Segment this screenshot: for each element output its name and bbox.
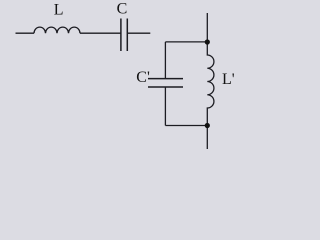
wire left branch lower	[164, 87, 166, 126]
wire bottom stub	[206, 126, 208, 150]
wire left branch upper	[164, 42, 166, 79]
node bottom junction	[205, 123, 210, 128]
wire top horizontal	[165, 41, 207, 43]
svg-text:L': L'	[222, 71, 235, 88]
inductor L	[34, 27, 80, 33]
svg-text:C: C	[117, 1, 128, 18]
wire left lead	[16, 32, 35, 34]
svg-text:L: L	[54, 1, 64, 18]
wire between L and C	[80, 32, 121, 34]
capacitor C' top plate	[148, 78, 183, 80]
wire bottom horizontal	[165, 125, 207, 127]
capacitor C' bottom plate	[148, 86, 183, 88]
inductor L'	[207, 42, 214, 126]
wire top stub	[206, 13, 208, 42]
svg-text:C': C'	[136, 69, 150, 86]
wire right lead of series branch	[127, 32, 150, 34]
capacitor C right plate	[126, 19, 128, 52]
node top junction	[205, 39, 210, 44]
capacitor C left plate	[120, 19, 122, 52]
